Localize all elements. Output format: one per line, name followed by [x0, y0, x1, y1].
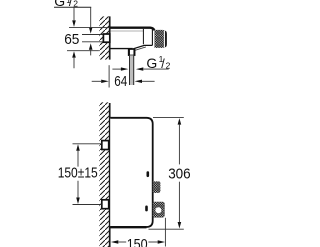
product top edge [110, 118, 153, 227]
G1/2 callout left arrowhead [121, 67, 128, 70]
extension line L3 (inlet bottom) [82, 41, 104, 43]
G1/2 callout right stem (underline of text) [143, 68, 168, 70]
dim 64 left arrowhead [101, 80, 109, 83]
knob end dark rim [165, 31, 167, 48]
dim 150±15 upper stem [77, 151, 79, 167]
svg-text:65: 65 [64, 32, 79, 48]
leader/dim stem B (x=90.7) [90, 7, 92, 27]
temperature knob knurl [155, 30, 167, 48]
wall hatch (bottom view) [99, 102, 109, 247]
valve body end cap line [151, 29, 153, 45]
wall face line (top view) [109, 16, 111, 59]
dim 150±15 bottom extension line [73, 204, 102, 206]
extension line L1 (body top) [69, 27, 110, 29]
arrowhead A down [72, 20, 76, 27]
leader/dim stem A (x=74) [73, 7, 75, 20]
dim 150 bottom left stem [118, 241, 126, 243]
svg-text:G: G [146, 55, 157, 71]
dim 150±15 top arrowhead [76, 144, 80, 151]
valve body divider line [142, 29, 144, 44]
arrowhead B down [89, 27, 93, 33]
stem A lower [73, 58, 75, 69]
G1/2 pipe callout left stem [112, 68, 121, 70]
dim 306 lower stem [178, 182, 180, 222]
knob2 extension line down [164, 218, 166, 247]
arrowhead B up [89, 43, 93, 49]
dim 150 bottom left arrowhead [111, 240, 118, 243]
extension line L2 (inlet top) [82, 34, 104, 36]
G1/2 callout right arrowhead [136, 67, 143, 70]
wall hatch (top view) [99, 16, 109, 59]
wall face extension line (below wall) [108, 65, 110, 87]
knob 2 (SmartControl button) [153, 202, 165, 218]
knob end white sliver [164, 31, 165, 48]
knob 1 (small knurled) [153, 181, 161, 193]
button tick 2 [145, 206, 148, 212]
dim 150±15 lower stem [77, 181, 79, 198]
valve body bottom edge [110, 48, 133, 50]
dim 64 right arrowhead [135, 80, 142, 83]
stem B lower [90, 50, 92, 56]
inlet union box (in wall) [103, 34, 109, 42]
valve body chamfer second line [134, 47, 146, 51]
dim 64 left stem [92, 80, 102, 82]
arrowhead A up [72, 51, 76, 57]
upper supply union box [102, 141, 109, 150]
product bottom edge (thicker) [110, 226, 146, 228]
knob 2 white circle [155, 207, 161, 213]
dim 150 bottom right arrowhead [158, 240, 165, 243]
svg-text:306: 306 [168, 167, 191, 183]
dim 150±15 top extension line [73, 143, 102, 145]
svg-text:64: 64 [114, 74, 127, 90]
dim 306 top extension line [153, 116, 184, 118]
valve body inner contour line [110, 30, 143, 32]
outlet pipe [129, 55, 134, 85]
dim 306 bottom arrowhead [178, 222, 182, 229]
svg-text:150±15: 150±15 [58, 166, 98, 182]
extension line L4 (body bottom) [67, 50, 99, 52]
svg-text:2: 2 [166, 61, 171, 71]
svg-text:150: 150 [127, 237, 148, 247]
dim 64 right stem [142, 80, 155, 82]
dim 306 bottom extension line [149, 228, 184, 230]
dim 150±15 bottom arrowhead [76, 198, 80, 205]
dim 306 top arrowhead [178, 118, 182, 125]
dim 150 bottom right stem [148, 241, 158, 243]
leader underline of G1/2 top [54, 6, 91, 8]
outlet pipe edges [130, 55, 134, 85]
valve body top edge (thick) [110, 28, 155, 31]
outlet collar (nut) [129, 49, 135, 55]
collar side shading [129, 49, 134, 55]
wall face line (bottom view) [109, 103, 111, 247]
dim 306 upper stem [178, 125, 180, 165]
lower supply union box [102, 200, 109, 209]
button tick 1 [147, 171, 150, 177]
valve body bottom chamfer [132, 45, 152, 49]
